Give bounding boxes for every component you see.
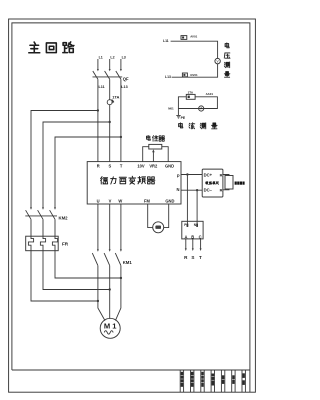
svg-text:L11: L11 <box>163 39 169 43</box>
svg-text:P: P <box>177 173 180 178</box>
svg-text:PE: PE <box>181 116 186 120</box>
svg-text:S: S <box>109 164 112 169</box>
svg-text:L11: L11 <box>99 85 105 89</box>
svg-text:QF: QF <box>123 76 129 81</box>
svg-text:N: N <box>177 187 180 192</box>
svg-text:U: U <box>97 199 100 204</box>
svg-text:KM1: KM1 <box>123 260 133 265</box>
svg-text:FR: FR <box>62 242 69 247</box>
svg-text:B: B <box>191 234 194 239</box>
svg-text:L13: L13 <box>121 85 127 89</box>
svg-text:AV01: AV01 <box>190 35 197 39</box>
svg-text:A: A <box>185 234 188 239</box>
svg-text:GV01: GV01 <box>190 73 198 77</box>
svg-text:GND: GND <box>165 199 174 204</box>
svg-text:GND: GND <box>165 164 174 169</box>
svg-text:KM2: KM2 <box>59 216 69 221</box>
svg-text:L3: L3 <box>122 55 126 59</box>
svg-text:V: V <box>109 199 112 204</box>
svg-text:T: T <box>199 255 202 260</box>
svg-text:FM: FM <box>144 199 151 204</box>
svg-text:C: C <box>199 234 202 239</box>
svg-text:DC−: DC− <box>204 188 213 193</box>
svg-text:AA01: AA01 <box>206 92 214 96</box>
svg-text:S: S <box>191 255 194 260</box>
svg-text:R: R <box>220 172 223 177</box>
svg-text:M 1: M 1 <box>104 321 117 330</box>
svg-text:N01: N01 <box>168 106 174 110</box>
svg-text:L13: L13 <box>165 75 171 79</box>
svg-text:10V: 10V <box>137 164 145 169</box>
svg-text:R: R <box>97 164 100 169</box>
svg-text:L2: L2 <box>110 55 114 59</box>
svg-text:1TA: 1TA <box>112 94 119 99</box>
svg-text:1TA: 1TA <box>188 91 194 95</box>
svg-text:L1: L1 <box>99 55 103 59</box>
svg-text:R: R <box>220 187 223 192</box>
svg-text:VR2: VR2 <box>149 164 158 169</box>
svg-text:DC+: DC+ <box>204 172 213 177</box>
svg-text:W: W <box>118 199 122 204</box>
